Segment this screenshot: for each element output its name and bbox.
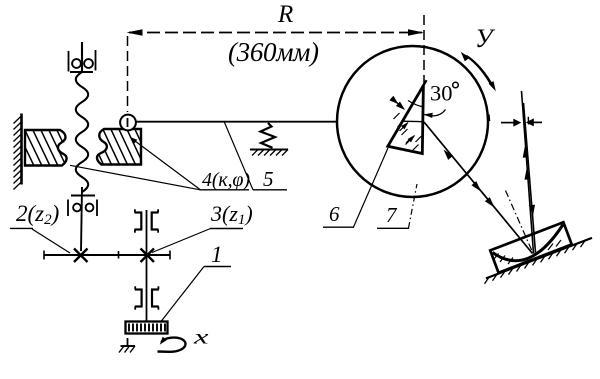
svg-text:x: x [193,325,209,348]
svg-text:5: 5 [263,167,274,191]
prism apex overshoot stroke [423,80,426,85]
leader (dash-dot) from label 7 to drum [409,184,418,228]
concave mirror surface [493,225,564,261]
leader from label 2 to gear mesh [32,229,70,253]
svg-text:(360мм): (360мм) [228,37,319,67]
label 5 with underline [253,167,287,191]
roller on nut (follower) [120,115,136,131]
label x (motor rotation) [193,325,209,348]
motor ground symbol [119,338,135,353]
spring (lever preload) with ground [250,123,288,156]
ground under mirror (hatched) [485,238,593,284]
light path inside prism (horizontal ray) [403,120,424,123]
rotating drum 7 (large circle) [337,46,488,197]
nut half-block right (hatched) [84,123,162,170]
svg-text:2(z2): 2(z2) [16,201,59,228]
motor 1 (hatched box) [126,322,168,334]
svg-text:4(к,φ): 4(к,φ) [202,169,250,191]
prism glass hatching [394,113,422,151]
screw top bearing [69,50,96,72]
label 4(к,φ) with underline [200,169,251,191]
screw 4 (wavy shaft line) [76,42,88,251]
label 7 with underline [377,203,409,228]
rotation arrow of motor axis [158,337,186,352]
gear mesh 3 (Z1) cross [141,249,155,263]
leader from label 1 to motor [161,267,204,322]
tick on drum right edge [488,115,491,122]
label 2(Z2) with underline [10,201,59,228]
prism 6 (30-degree wedge) [388,86,424,154]
label 6 with underline [323,202,354,227]
leader from label 3 to gear mesh [152,229,211,253]
label 1 with underline [204,242,231,267]
oscillation arrow У (double arc) [461,52,496,91]
vertical light ray (up) [522,91,534,254]
light ray between prism and mirror [424,122,533,254]
label (360мм) [228,37,319,67]
extension line left (dashed) [127,36,129,112]
slit / reading index symbol [501,117,542,127]
concave mirror box 7 [490,222,572,272]
leader from label 6 to prism [354,148,389,227]
gear pair coupling upper ][ [135,209,159,232]
label 30° [430,81,458,106]
mirror normal (dash-dot) [506,191,533,253]
light path arrows inside prism [400,122,416,145]
label 3(Z1) with underline [210,201,253,229]
leader from left block to label 4 [70,165,200,190]
gear mesh 2 (Z2) cross [74,249,88,263]
vertical motor shaft [146,210,148,322]
incident ray arrow at prism left face [389,96,405,110]
label У [475,24,496,53]
svg-text:30: 30 [430,81,453,106]
lever 5 (horizontal bar to drum) [136,121,337,123]
svg-text:7: 7 [386,203,398,227]
svg-text:1: 1 [211,242,223,267]
leader from screw block to label 4 [130,137,201,190]
angle arc 30° with arrow [408,101,446,119]
wall (fixed support) with hatching [14,114,22,190]
svg-text:3(z1): 3(z1) [210,201,253,228]
svg-text:R: R [277,1,293,28]
horizontal gear shaft [44,251,170,260]
gear pair coupling lower ][ [135,286,159,309]
vertical light ray (down) [524,103,536,253]
label R [277,1,293,28]
screw lower bearing [68,196,97,217]
svg-text:6: 6 [329,202,340,226]
nut half-block left (hatched) [6,124,92,170]
svg-text:У: У [475,24,496,53]
extension line right / prism axis (dashed) [423,15,425,84]
leader from label 5 to lever [224,122,253,190]
dimension line R (dashed, double arrow) [127,29,425,35]
mirror glass hatching [494,240,561,264]
